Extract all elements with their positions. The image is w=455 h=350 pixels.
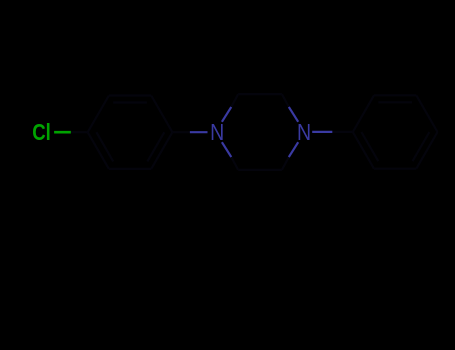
bond C8-N2 upper (carbon half) <box>282 94 289 107</box>
bond C10-N2 lower (nitrogen half) <box>289 142 298 157</box>
bond C7-C8 top <box>238 93 282 95</box>
inner aromatic line left-bottom <box>361 132 378 161</box>
wire C14-C15 <box>416 132 437 169</box>
bond C10-N2 lower (carbon half) <box>282 157 289 170</box>
bond N1-C9 lower (carbon half) <box>231 157 238 170</box>
wire C4-C5 <box>151 132 172 169</box>
inner aromatic line top <box>113 101 147 103</box>
bond N1-C7 upper (carbon half) <box>231 94 238 107</box>
bond C4-N1 (carbon half) <box>172 131 190 133</box>
wire C6-C1 <box>88 132 109 169</box>
svg-text:N: N <box>297 120 311 146</box>
bond C8-N2 upper (nitrogen half) <box>289 107 298 122</box>
bond N1-C9 lower (nitrogen half) <box>222 142 231 157</box>
bond C9-C10 bottom <box>238 169 282 171</box>
bond N1-C7 upper (nitrogen half) <box>222 107 231 122</box>
wire C5-C6 <box>109 168 151 170</box>
inner aromatic line right-bottom <box>413 132 430 161</box>
bond Cl-C1 (green half) <box>54 131 71 134</box>
wire C11-C12 <box>353 95 374 132</box>
wire C3-C4 <box>151 96 172 133</box>
wire C13-C14 <box>416 95 437 132</box>
bond Cl-C1 (carbon half) <box>71 131 88 133</box>
wire C1-C2 <box>88 96 109 133</box>
benzene ring 1 (chlorophenyl) <box>88 96 173 169</box>
wire C15-C16 <box>374 168 416 170</box>
inner aromatic line top <box>378 101 412 103</box>
benzene ring 2 (phenyl) <box>353 95 438 168</box>
wire C12-C13 <box>374 94 416 96</box>
wire C2-C3 <box>109 94 151 96</box>
inner aromatic line left-bottom <box>96 132 113 161</box>
bond N2-C11 (nitrogen half) <box>312 131 332 133</box>
svg-text:Cl: Cl <box>32 120 51 145</box>
bond C4-N1 (nitrogen half) <box>190 131 208 133</box>
inner aromatic line right-bottom <box>147 132 164 161</box>
wire C16-C11 <box>353 132 374 169</box>
svg-text:N: N <box>210 120 224 146</box>
bond N2-C11 (carbon half) <box>332 131 352 133</box>
